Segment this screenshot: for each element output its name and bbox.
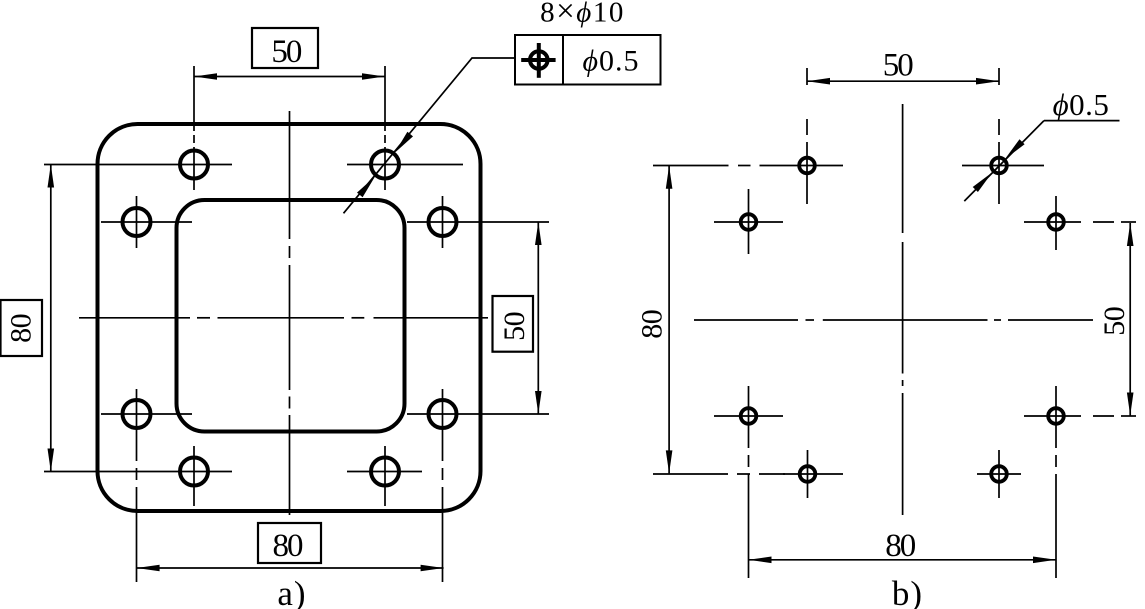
- hole centerlines / extension lines view a: [44, 66, 549, 582]
- hole b6 lower-right side: [1048, 408, 1064, 424]
- svg-text:b): b): [892, 574, 923, 609]
- dimension 50 top view b: [807, 80, 999, 82]
- b1 cross: [760, 165, 844, 167]
- b4 cross: [1024, 221, 1081, 223]
- dimension 80 left view b: [668, 166, 670, 474]
- svg-text:80: 80: [5, 314, 38, 343]
- left 80 extensions through holes: [44, 164, 232, 166]
- hole b4 upper-right side: [1048, 214, 1064, 230]
- outer plate outline: [98, 124, 481, 511]
- svg-text:50: 50: [883, 48, 914, 84]
- dim box 50 top: [252, 28, 318, 68]
- b5 cross: [714, 415, 783, 417]
- svg-text:ϕ0.5: ϕ0.5: [1053, 87, 1110, 122]
- main horizontal centerline view b: [694, 319, 1093, 321]
- main vertical centerline view b: [902, 104, 904, 515]
- b6 cross: [1024, 415, 1081, 417]
- svg-text:80: 80: [885, 528, 916, 564]
- hole b3 upper-left side: [741, 214, 757, 230]
- hole a7 bottom-left: [180, 458, 208, 486]
- leader arrowhead view b lower: [973, 172, 993, 192]
- dim box 50 right: [493, 296, 534, 352]
- side holes horizontals: [101, 221, 192, 223]
- b8 cross: [977, 473, 1021, 475]
- hole b1 top-left: [799, 158, 815, 174]
- svg-text:50: 50: [498, 312, 531, 341]
- dim box 80 bottom: [258, 523, 321, 563]
- horizontal centerline view a: [79, 317, 488, 319]
- inner square opening: [177, 200, 405, 432]
- dimension 80 left view a: [50, 165, 52, 472]
- hole b5 lower-left side: [741, 408, 757, 424]
- b3 cross: [714, 221, 783, 223]
- hole a2 top-right: [371, 151, 399, 179]
- svg-text:ϕ0.5: ϕ0.5: [582, 45, 639, 78]
- hole b7 bottom-left: [800, 466, 816, 482]
- svg-text:80: 80: [636, 310, 669, 339]
- bottom holes verticals: [193, 446, 195, 506]
- FCF leader line: [344, 58, 516, 213]
- svg-text:50: 50: [1098, 307, 1131, 336]
- hole a5 lower-left side: [123, 400, 151, 428]
- svg-text:a): a): [277, 574, 306, 609]
- position symbol: [521, 43, 555, 78]
- dimension 50 right view b: [1129, 223, 1131, 416]
- leader arrowhead view b upper: [1005, 139, 1025, 159]
- hole a6 lower-right side: [429, 400, 457, 428]
- svg-text:8×ϕ10: 8×ϕ10: [540, 0, 625, 30]
- dimension 80 bottom view b: [749, 559, 1057, 561]
- dimension 50 top view a: [194, 76, 385, 78]
- b7 cross: [783, 473, 843, 475]
- hole b2 top-right: [991, 158, 1007, 174]
- dimension 50 right view a: [537, 222, 539, 414]
- top-right hole horizontal: [347, 164, 463, 166]
- hole a3 upper-left side: [123, 208, 151, 236]
- hole crosses and extensions view b: [653, 68, 1136, 578]
- hole a1 top-left: [180, 151, 208, 179]
- FCF leader arrowhead lower: [357, 176, 375, 197]
- top holes vertical ext: [193, 66, 195, 190]
- FCF leader arrowhead upper: [395, 132, 413, 153]
- hole b8 bottom-right: [991, 466, 1007, 482]
- dimension 80 bottom view a: [137, 567, 444, 569]
- svg-text:50: 50: [271, 34, 302, 70]
- side holes upper verticals: [136, 196, 138, 248]
- hole a4 upper-right side: [429, 208, 457, 236]
- dim box 80 left: [1, 300, 43, 356]
- bottom-right hole horizontal: [347, 471, 422, 473]
- lower side holes verticals extending to bottom dim: [136, 389, 138, 461]
- b2 cross: [962, 165, 1044, 167]
- vertical centerline view a: [289, 111, 291, 515]
- feature control frame: [515, 35, 661, 85]
- svg-text:80: 80: [273, 528, 304, 564]
- hole a8 bottom-right: [371, 458, 399, 486]
